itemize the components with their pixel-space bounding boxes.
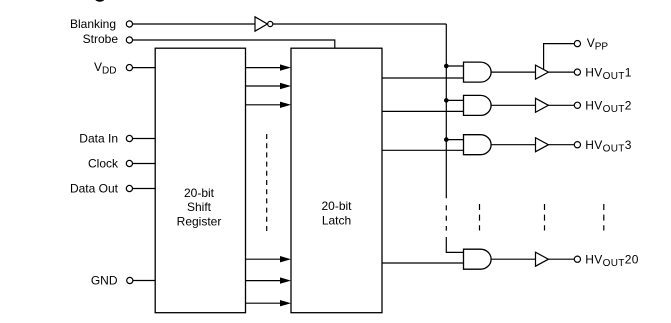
wire: VPP to buffer 1: [544, 44, 575, 70]
wire: latch output 2 to AND gate 2: [382, 110, 464, 112]
wire: shift register to latch bit 1 (arrow): [246, 64, 292, 70]
wire: shift register to latch bit 19 (arrow): [246, 277, 292, 283]
buffer 1: [536, 65, 549, 79]
wire: shift register to latch bit 2 (arrow): [246, 83, 292, 89]
block: 20-bit shift register: [155, 48, 245, 313]
wire: AND gate 2 to buffer 2: [491, 104, 535, 106]
AND gate 3: [464, 135, 492, 155]
wire: latch output 1 to AND gate 1: [382, 77, 464, 79]
terminal VDD: [126, 65, 132, 71]
svg-text:Shift: Shift: [187, 200, 212, 214]
AND gate 1: [464, 62, 492, 82]
wire: blanking bus to AND gate 3 top input: [446, 139, 463, 141]
terminal HVOUT3: [574, 142, 580, 148]
svg-text:Data Out: Data Out: [70, 182, 119, 196]
terminal Data In: [126, 135, 132, 141]
wire: buffer 20 to HVOUT20 terminal: [548, 258, 574, 260]
wire: Blanking terminal to inverter input: [133, 23, 255, 25]
AND gate 2: [464, 95, 492, 115]
svg-text:20-bit: 20-bit: [321, 199, 352, 213]
svg-text:HVOUT20: HVOUT20: [585, 253, 639, 270]
wire: VDD terminal to shift register: [133, 67, 156, 69]
dashed continuation under output terminals: [603, 204, 605, 231]
terminal HVOUT2: [574, 102, 580, 108]
wire: Clock terminal to shift register: [133, 163, 156, 165]
wire: blanking vertical bus (solid upper part): [445, 24, 447, 198]
terminal HVOUT20: [574, 256, 580, 262]
junction on blanking bus at gate 1: [444, 64, 449, 69]
buffer 2: [536, 98, 549, 112]
wire: latch output 20 to AND gate 20: [382, 262, 464, 264]
wire: inverter output to blanking bus: [273, 23, 447, 25]
svg-text:HVOUT3: HVOUT3: [585, 138, 632, 155]
terminal Data Out: [126, 185, 132, 191]
AND gate 20: [464, 249, 492, 269]
cropped caption descender artifact at top: [95, 0, 105, 2]
wire: buffer 1 to HVOUT1 terminal: [548, 71, 574, 73]
buffer 3: [536, 138, 549, 152]
svg-text:Data In: Data In: [79, 132, 118, 146]
wire: blanking bus dashed continuation: [445, 205, 447, 230]
svg-text:HVOUT2: HVOUT2: [585, 99, 632, 116]
terminal Strobe: [126, 37, 132, 43]
wire: GND terminal to shift register: [133, 280, 155, 282]
svg-text:Clock: Clock: [88, 157, 119, 171]
wire: shift register to latch bit 20 (arrow): [246, 300, 292, 306]
dashed continuation under AND gates: [479, 204, 481, 231]
svg-text:Strobe: Strobe: [83, 32, 119, 46]
wire: blanking bus lower part into AND gate 20 top input: [446, 237, 463, 252]
wire: blanking bus to AND gate 1 top input: [446, 65, 463, 67]
svg-text:VPP: VPP: [587, 36, 609, 53]
wire: AND gate 1 to buffer 1: [491, 71, 535, 73]
wire: blanking bus to AND gate 2 top input: [446, 99, 463, 101]
wire: shift register to latch bit 18 (arrow): [246, 256, 292, 262]
terminal GND: [127, 277, 133, 283]
wire: Data Out terminal to shift register: [133, 188, 156, 190]
terminal HVOUT1: [574, 69, 580, 75]
wire: buffer 2 to HVOUT2 terminal: [548, 104, 574, 106]
inverter (blanking buffer): [255, 17, 273, 31]
dashed continuation under buffers: [544, 204, 546, 231]
terminal Blanking: [126, 21, 132, 27]
wire: AND gate 20 to buffer 20: [491, 258, 535, 260]
wire: Strobe terminal to latch top: [133, 40, 335, 48]
junction on blanking bus at gate 2: [444, 98, 449, 103]
wire: latch output 3 to AND gate 3: [382, 149, 464, 151]
terminal VPP: [574, 41, 580, 47]
junction on blanking bus at gate 3: [444, 137, 449, 142]
terminal Clock: [126, 160, 132, 166]
buffer 20: [536, 252, 549, 266]
wire: Data In terminal to shift register: [133, 138, 156, 140]
svg-text:GND: GND: [91, 274, 118, 288]
dashed continuation between shift register and latch: [266, 134, 268, 235]
wire: AND gate 3 to buffer 3: [491, 144, 535, 146]
svg-text:HVOUT1: HVOUT1: [585, 65, 632, 82]
svg-text:Blanking: Blanking: [70, 17, 116, 31]
wire: shift register to latch bit 3 (arrow): [246, 102, 292, 108]
svg-text:Register: Register: [177, 214, 222, 228]
svg-text:Latch: Latch: [322, 213, 351, 227]
svg-text:20-bit: 20-bit: [184, 186, 215, 200]
wire: buffer 3 to HVOUT3 terminal: [548, 144, 574, 146]
svg-text:VDD: VDD: [94, 60, 116, 77]
block: 20-bit latch: [291, 48, 382, 313]
